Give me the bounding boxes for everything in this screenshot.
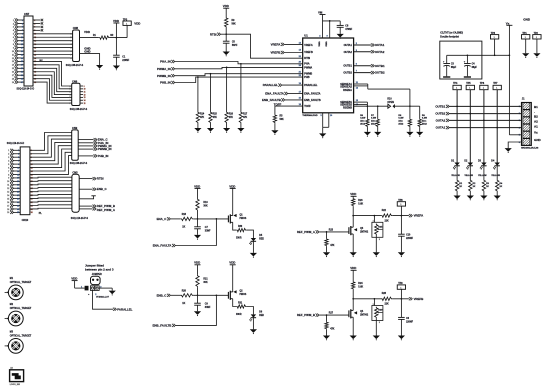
wire VM rail bbox=[322, 15, 324, 39]
svg-text:1: 1 bbox=[126, 23, 127, 25]
svg-text:21: 21 bbox=[21, 54, 23, 56]
svg-text:ENA_FAULTA: ENA_FAULTA bbox=[265, 92, 285, 96]
svg-text:RTBI: RTBI bbox=[97, 177, 104, 181]
svg-text:*: * bbox=[88, 293, 89, 297]
wire PWMA_IN to U1 bbox=[175, 67, 303, 68]
svg-text:OPEN: OPEN bbox=[387, 102, 394, 104]
net port PHB_IN at CN9 bbox=[78, 155, 93, 157]
svg-text:OUTB1: OUTB1 bbox=[375, 64, 385, 68]
svg-text:CN7: CN7 bbox=[24, 12, 30, 16]
svg-text:12: 12 bbox=[7, 188, 9, 190]
svg-text:1K: 1K bbox=[486, 186, 489, 188]
ground under TP2 bbox=[533, 53, 540, 57]
svg-text:17: 17 bbox=[17, 178, 19, 180]
resistor 330R for D5 bbox=[236, 228, 246, 231]
svg-text:7: 7 bbox=[18, 160, 19, 162]
CN7 pin 6 wires bbox=[18, 36, 25, 38]
svg-text:33NF: 33NF bbox=[205, 307, 211, 309]
svg-text:3: 3 bbox=[8, 157, 9, 159]
net port PARALLEL from jumper pin2 bbox=[93, 290, 114, 309]
svg-text:13: 13 bbox=[7, 192, 9, 194]
svg-text:PMOS: PMOS bbox=[240, 218, 247, 220]
net port ENA_FAULTA bbox=[176, 219, 217, 246]
capacitor C10 220NF bbox=[400, 216, 402, 235]
capacitor C1 220NF bbox=[115, 38, 117, 56]
svg-text:OUTB2: OUTB2 bbox=[435, 112, 445, 116]
wire VDD flag down bbox=[115, 23, 117, 38]
wires CN10 to CN5 bbox=[30, 176, 72, 179]
svg-text:R21: R21 bbox=[203, 279, 208, 281]
svg-text:RSENB: RSENB bbox=[343, 107, 352, 110]
connector CN6 SSQ-108-24-P-S bbox=[72, 83, 80, 105]
svg-text:TP4: TP4 bbox=[453, 82, 458, 85]
resistor series for D4 1K bbox=[496, 179, 499, 192]
ground under LED D3 bbox=[480, 196, 487, 200]
svg-text:PHB: PHB bbox=[304, 76, 309, 79]
svg-text:7: 7 bbox=[13, 41, 14, 43]
CN10 pin 17 wires bbox=[13, 205, 20, 207]
svg-text:47K: 47K bbox=[213, 116, 218, 119]
wire net to R22 bbox=[353, 215, 381, 217]
net port OUTA1 at U1 bbox=[354, 44, 371, 46]
svg-text:22m: 22m bbox=[422, 121, 426, 123]
svg-text:2512: 2512 bbox=[422, 124, 428, 126]
svg-text:ENB_FAULTB: ENB_FAULTB bbox=[304, 99, 321, 102]
LED D5 RED bbox=[251, 238, 256, 241]
svg-text:PWMB_IN: PWMB_IN bbox=[98, 147, 112, 151]
svg-text:9: 9 bbox=[18, 164, 19, 166]
ground under R15 bbox=[207, 128, 214, 132]
CN7 pin 14 wires bbox=[18, 64, 25, 66]
net port OUTA2 at U1 bbox=[354, 51, 371, 53]
svg-text:22m: 22m bbox=[360, 121, 364, 123]
svg-text:5: 5 bbox=[22, 27, 23, 29]
svg-text:PWMA_IN: PWMA_IN bbox=[157, 67, 171, 71]
svg-text:9: 9 bbox=[22, 34, 23, 36]
svg-text:30K: 30K bbox=[203, 282, 208, 284]
svg-text:OUTA1: OUTA1 bbox=[344, 44, 353, 47]
svg-text:R30: R30 bbox=[238, 226, 243, 228]
CN10 pin 8 wires bbox=[13, 173, 20, 175]
svg-text:2512: 2512 bbox=[371, 124, 377, 126]
svg-text:5: 5 bbox=[70, 97, 71, 99]
svg-text:PHB_IN: PHB_IN bbox=[98, 154, 109, 158]
svg-text:31: 31 bbox=[17, 202, 19, 204]
svg-text:PL: PL bbox=[39, 212, 43, 215]
svg-text:7: 7 bbox=[22, 30, 23, 32]
svg-text:VREFB: VREFB bbox=[414, 297, 424, 301]
resistor R8 0.4W 22m sense bbox=[408, 118, 411, 127]
net port VREFA bbox=[409, 214, 411, 217]
svg-text:5: 5 bbox=[13, 34, 14, 36]
svg-text:VDD: VDD bbox=[134, 21, 140, 25]
svg-text:OUTA2: OUTA2 bbox=[375, 50, 385, 54]
resistor R18 1K bbox=[171, 218, 181, 220]
ground at CN8 bbox=[96, 65, 103, 69]
CN10 pin 19 wires bbox=[13, 211, 20, 213]
svg-text:1: 1 bbox=[18, 150, 19, 152]
svg-text:VBB1: VBB1 bbox=[317, 42, 319, 47]
svg-text:OPTICAL_TARGET: OPTICAL_TARGET bbox=[10, 281, 32, 284]
svg-text:B2: B2 bbox=[534, 115, 538, 119]
wire TP5 to OUTB2 and LED D2 bbox=[469, 90, 471, 163]
capacitor C9 33NF bbox=[197, 295, 199, 303]
svg-text:R17: R17 bbox=[243, 114, 248, 116]
svg-text:R24: R24 bbox=[358, 282, 363, 285]
svg-text:OUTB1: OUTB1 bbox=[435, 104, 445, 108]
svg-text:25: 25 bbox=[17, 192, 19, 194]
LED D6 RED bbox=[251, 314, 256, 317]
CN7 pin 9 wires bbox=[18, 47, 25, 49]
CN7 pin 13 wires bbox=[18, 60, 25, 62]
svg-text:5: 5 bbox=[8, 164, 9, 166]
svg-text:1K: 1K bbox=[473, 186, 476, 188]
svg-text:1: 1 bbox=[70, 86, 71, 88]
svg-text:OUTA2: OUTA2 bbox=[436, 118, 446, 122]
net port OUTB2 at U1 bbox=[354, 72, 371, 74]
resistor R28 22K bbox=[381, 297, 392, 300]
wire VDD to jumper pin1 bbox=[75, 287, 85, 289]
svg-text:8: 8 bbox=[8, 174, 9, 176]
ground under C10 bbox=[398, 252, 405, 256]
resistor series for D3 1K bbox=[482, 179, 485, 192]
svg-text:1: 1 bbox=[8, 150, 9, 152]
ground under LED D4 bbox=[494, 196, 501, 200]
wire SENSEA1/SENSEA2 to sense node A bbox=[354, 83, 368, 85]
svg-text:ENB_C: ENB_C bbox=[97, 187, 108, 191]
svg-text:1: 1 bbox=[400, 204, 401, 206]
svg-text:25: 25 bbox=[21, 61, 23, 63]
resistor R20 1K bbox=[171, 294, 181, 296]
ground under C5 bbox=[223, 52, 230, 56]
svg-text:12: 12 bbox=[12, 58, 14, 60]
CN7 pin 1 wires bbox=[18, 19, 25, 21]
wire RTBI node to U1 bbox=[226, 34, 303, 58]
svg-text:SSQ-108-24-P-S: SSQ-108-24-P-S bbox=[70, 108, 88, 111]
wire PHA_IN to U1 bbox=[175, 62, 303, 64]
CN7 pin 8 wires bbox=[18, 43, 25, 45]
svg-text:3: 3 bbox=[22, 23, 23, 25]
wire TP3 stub bbox=[126, 25, 128, 37]
svg-text:16: 16 bbox=[7, 202, 9, 204]
svg-text:7: 7 bbox=[70, 54, 71, 56]
ground under C6 bbox=[398, 336, 405, 340]
CN10 pin 13 wires bbox=[13, 191, 20, 193]
wire VM to J1 Vx bbox=[508, 25, 510, 135]
svg-text:11: 11 bbox=[84, 92, 86, 94]
wires CN10 to CN9 bbox=[30, 133, 72, 151]
svg-text:3: 3 bbox=[379, 239, 380, 241]
svg-text:VDD: VDD bbox=[350, 192, 356, 196]
svg-text:THERMALPAD: THERMALPAD bbox=[302, 114, 318, 117]
svg-text:33NF: 33NF bbox=[205, 231, 211, 233]
svg-text:1K: 1K bbox=[499, 186, 502, 188]
wire TP4 to OUTB1 and LED D1 bbox=[456, 90, 458, 163]
svg-text:17: 17 bbox=[12, 75, 14, 77]
svg-text:SSQ-119-24-G-D: SSQ-119-24-G-D bbox=[17, 88, 35, 91]
resistor R14 47K pulldown bbox=[197, 77, 199, 111]
svg-text:220NF: 220NF bbox=[406, 321, 413, 323]
svg-text:29: 29 bbox=[21, 68, 23, 70]
CN10 pin 6 wires bbox=[13, 167, 20, 169]
svg-text:18: 18 bbox=[7, 209, 9, 211]
svg-text:38: 38 bbox=[31, 212, 33, 214]
svg-text:220NF: 220NF bbox=[122, 60, 129, 62]
CN7 pin 16 wires bbox=[18, 71, 25, 73]
svg-text:RTBI: RTBI bbox=[210, 32, 217, 36]
net port RTBI at CN5 bbox=[79, 178, 92, 180]
svg-text:4: 4 bbox=[70, 93, 71, 96]
svg-text:R10: R10 bbox=[387, 99, 392, 101]
svg-text:1K: 1K bbox=[182, 227, 185, 229]
svg-text:2N7002: 2N7002 bbox=[360, 231, 369, 233]
svg-text:33: 33 bbox=[21, 75, 23, 77]
svg-text:6: 6 bbox=[13, 37, 14, 39]
CN10 pin 4 wires bbox=[13, 160, 20, 162]
CN7 pin 7 wires bbox=[18, 40, 25, 42]
ground under C8 bbox=[337, 34, 344, 38]
wire R1 to TP3 corner bbox=[110, 37, 128, 39]
ground under D6 bbox=[250, 329, 257, 333]
svg-text:10: 10 bbox=[12, 51, 14, 53]
net port VREFB bbox=[409, 297, 411, 300]
svg-text:REF_PWM_A: REF_PWM_A bbox=[97, 208, 116, 212]
svg-text:1: 1 bbox=[400, 287, 401, 289]
svg-text:330R: 330R bbox=[236, 314, 242, 316]
svg-text:47K: 47K bbox=[330, 244, 335, 247]
resistor R9b 0.4W 22m sense bbox=[419, 106, 421, 118]
svg-text:13: 13 bbox=[21, 41, 23, 43]
ground under R25 bbox=[373, 252, 380, 256]
CN10 pin 12 wires bbox=[13, 187, 20, 189]
svg-text:4: 4 bbox=[13, 29, 14, 32]
net port ENB_C at CN5 bbox=[79, 188, 92, 190]
CN7 pin 10 wires bbox=[18, 50, 25, 52]
svg-text:OUTB1: OUTB1 bbox=[343, 65, 352, 68]
svg-text:RED: RED bbox=[259, 315, 264, 317]
svg-text:11: 11 bbox=[21, 37, 23, 39]
svg-text:CN8: CN8 bbox=[73, 26, 79, 30]
wire PWMB_IN to U1 bbox=[175, 74, 303, 76]
svg-text:3: 3 bbox=[18, 154, 19, 156]
svg-text:YELLOW: YELLOW bbox=[464, 175, 473, 177]
svg-text:PMOS: PMOS bbox=[240, 294, 247, 296]
CN7 pin 19 wires bbox=[18, 81, 25, 83]
resistor R6 0.4W 22m sense bbox=[366, 106, 368, 118]
resistor R5 56K bbox=[273, 114, 276, 123]
ground under R5 bbox=[271, 130, 278, 134]
svg-text:VREFB: VREFB bbox=[304, 51, 313, 54]
svg-text:56K: 56K bbox=[232, 23, 237, 25]
svg-text:GND: GND bbox=[534, 138, 542, 142]
CN7 pin 5 wires bbox=[18, 33, 25, 35]
svg-text:1: 1 bbox=[469, 88, 470, 90]
svg-text:ENA_FAULTA: ENA_FAULTA bbox=[304, 92, 320, 95]
svg-text:NC: NC bbox=[40, 60, 44, 62]
svg-text:SSQ-110-24-P-S: SSQ-110-24-P-S bbox=[71, 217, 89, 220]
svg-text:6: 6 bbox=[70, 100, 71, 102]
svg-text:2512: 2512 bbox=[360, 124, 366, 126]
svg-text:22m: 22m bbox=[371, 121, 375, 123]
wire VDD to R9 bbox=[225, 8, 227, 17]
svg-text:2: 2 bbox=[8, 154, 9, 156]
svg-text:5.6K: 5.6K bbox=[358, 203, 363, 205]
resistor R7 0.4W 22m sense bbox=[377, 106, 379, 118]
svg-text:YELLOW: YELLOW bbox=[451, 175, 460, 177]
svg-text:6: 6 bbox=[8, 167, 9, 169]
CN10 pin 1 wires bbox=[13, 149, 20, 151]
svg-text:-: - bbox=[534, 110, 535, 114]
resistor R1 0R bbox=[99, 36, 110, 39]
svg-text:VDD: VDD bbox=[350, 266, 356, 270]
svg-text:PARALLEL: PARALLEL bbox=[263, 83, 278, 87]
svg-text:14: 14 bbox=[84, 99, 86, 102]
svg-text:PARALLEL: PARALLEL bbox=[304, 84, 318, 87]
svg-text:CN10: CN10 bbox=[22, 218, 29, 222]
resistor R19 30K pullup bbox=[196, 198, 199, 211]
svg-text:ENA_FAULTA: ENA_FAULTA bbox=[153, 244, 173, 248]
svg-text:2: 2 bbox=[13, 23, 14, 25]
svg-text:R28: R28 bbox=[382, 293, 387, 295]
svg-text:12: 12 bbox=[84, 94, 86, 96]
ground at jumper bbox=[109, 291, 116, 295]
svg-text:REF_PWM_A: REF_PWM_A bbox=[297, 230, 316, 234]
svg-text:ENB_FAULTB: ENB_FAULTB bbox=[262, 98, 281, 102]
svg-text:A1: A1 bbox=[534, 125, 538, 129]
wire ENA_C node to gate bbox=[193, 218, 228, 220]
svg-text:SSQ-108-24-P-S: SSQ-108-24-P-S bbox=[66, 64, 84, 67]
potentiometer R25 bbox=[373, 216, 375, 223]
svg-text:VDD: VDD bbox=[194, 184, 200, 188]
svg-text:7: 7 bbox=[70, 103, 71, 105]
ground under Q3 bbox=[350, 252, 357, 256]
wire TP7 to OUTA1 and LED D4 bbox=[496, 90, 498, 163]
svg-text:23: 23 bbox=[21, 58, 23, 60]
capacitor C4 68uF bbox=[466, 55, 468, 63]
svg-text:PWMB_IN: PWMB_IN bbox=[157, 74, 171, 78]
svg-text:VM: VM bbox=[318, 10, 323, 14]
svg-text:11: 11 bbox=[17, 167, 19, 169]
wire OUTB1 to J1 bbox=[450, 105, 522, 107]
svg-text:GND: GND bbox=[523, 17, 531, 21]
wires CN7 to CN8 bbox=[33, 33, 73, 35]
svg-text:between pin 2 and 3: between pin 2 and 3 bbox=[85, 267, 114, 271]
svg-text:ENB_C: ENB_C bbox=[157, 293, 168, 297]
svg-text:10: 10 bbox=[7, 181, 9, 183]
CN10 pin 3 wires bbox=[13, 156, 20, 158]
wire J1 Vx pin bbox=[509, 134, 521, 136]
svg-text:1K: 1K bbox=[459, 186, 462, 188]
svg-text:17: 17 bbox=[7, 205, 9, 207]
wire Q4 drain to net bbox=[352, 299, 354, 311]
svg-text:VREFA: VREFA bbox=[304, 44, 313, 47]
svg-text:15: 15 bbox=[84, 103, 86, 105]
svg-text:1: 1 bbox=[13, 20, 14, 22]
svg-text:15: 15 bbox=[17, 174, 19, 176]
svg-text:8Y2022-1-07: 8Y2022-1-07 bbox=[96, 297, 109, 299]
ground under C1 bbox=[113, 66, 120, 70]
svg-text:22K: 22K bbox=[385, 304, 390, 306]
svg-text:RSENA: RSENA bbox=[343, 89, 352, 92]
wire OUTA2 to J1 bbox=[450, 119, 522, 121]
ground under R6 bbox=[364, 132, 371, 136]
svg-text:22K: 22K bbox=[385, 220, 390, 222]
svg-text:33: 33 bbox=[17, 205, 19, 207]
svg-text:56PF: 56PF bbox=[232, 45, 238, 47]
net port PWMA_IN at CN9 bbox=[78, 145, 93, 147]
svg-text:Double footprint: Double footprint bbox=[440, 35, 459, 38]
resistor R16 47K pulldown bbox=[226, 67, 228, 111]
net port REF_PWM_A at CN5 bbox=[79, 208, 92, 210]
wire net to R28 bbox=[353, 298, 381, 300]
resistor R27 47K pulldown bbox=[326, 315, 328, 321]
ground under D5 bbox=[250, 253, 257, 257]
svg-text:330R: 330R bbox=[236, 238, 242, 240]
CN10 pin 11 wires bbox=[13, 184, 20, 186]
resistor 330R for D6 bbox=[236, 305, 246, 308]
svg-text:CN5: CN5 bbox=[72, 170, 78, 174]
connector CN8 SSQ-108-24-P-S bbox=[73, 30, 80, 62]
svg-text:2: 2 bbox=[70, 89, 71, 91]
svg-text:19: 19 bbox=[17, 181, 19, 183]
svg-text:YELLOW: YELLOW bbox=[478, 175, 487, 177]
svg-text:R19: R19 bbox=[203, 202, 208, 204]
svg-text:VDD: VDD bbox=[223, 4, 229, 8]
wire OUTA1 to J1 bbox=[450, 127, 522, 129]
svg-text:1: 1 bbox=[22, 20, 23, 22]
CN7 pin 18 wires bbox=[18, 78, 25, 80]
net port OUTB1 at U1 bbox=[354, 65, 371, 67]
svg-text:9: 9 bbox=[84, 86, 85, 88]
capacitor C8 470NF at VM bbox=[339, 21, 341, 26]
svg-text:1: 1 bbox=[536, 37, 537, 39]
wire REF_PWM_A to gate bbox=[319, 231, 349, 233]
svg-text:15: 15 bbox=[21, 44, 23, 46]
svg-text:68µF: 68µF bbox=[472, 67, 478, 69]
svg-text:3: 3 bbox=[70, 41, 71, 43]
svg-text:19: 19 bbox=[21, 51, 23, 53]
svg-text:C3,THT (or C4,SMD): C3,THT (or C4,SMD) bbox=[440, 32, 463, 35]
svg-text:LOGO_SM: LOGO_SM bbox=[10, 384, 20, 386]
svg-text:1: 1 bbox=[70, 34, 71, 36]
svg-text:1: 1 bbox=[483, 88, 484, 90]
svg-text:OUTB2: OUTB2 bbox=[343, 72, 352, 75]
svg-text:23: 23 bbox=[17, 188, 19, 190]
svg-text:OUTA1: OUTA1 bbox=[375, 43, 385, 47]
ground under R7 bbox=[374, 132, 381, 136]
svg-text:56K: 56K bbox=[280, 119, 285, 121]
CN10 pin 2 wires bbox=[13, 153, 20, 155]
svg-text:14: 14 bbox=[12, 64, 14, 67]
svg-text:17: 17 bbox=[21, 47, 23, 49]
svg-text:8: 8 bbox=[13, 44, 14, 46]
wire CN8 GND pin to ground bbox=[80, 54, 100, 65]
svg-text:R18: R18 bbox=[182, 214, 187, 216]
net port REF_PWM_B at CN5 bbox=[79, 205, 92, 207]
svg-text:19: 19 bbox=[7, 212, 9, 214]
CN10 pin 14 wires bbox=[13, 194, 20, 196]
resistor R17 47K pulldown bbox=[240, 64, 242, 111]
svg-text:Vx: Vx bbox=[534, 131, 538, 135]
transistor Q3 NMOS bbox=[348, 227, 350, 234]
CN10 pin 10 wires bbox=[13, 180, 20, 182]
svg-text:5: 5 bbox=[70, 47, 71, 49]
svg-text:VREFB: VREFB bbox=[271, 51, 281, 55]
net port PWMB_IN at CN9 bbox=[78, 148, 93, 150]
svg-text:6: 6 bbox=[70, 51, 71, 53]
ground under LED D2 bbox=[467, 196, 474, 200]
CN7 pin 2 wires bbox=[18, 22, 25, 24]
